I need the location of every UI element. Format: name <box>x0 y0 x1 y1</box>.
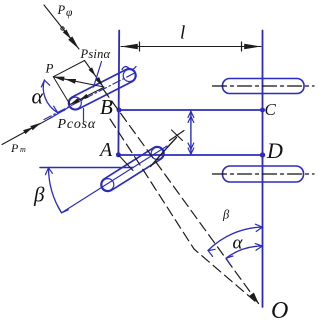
dimension k bottom chevrons <box>188 143 194 154</box>
solid start of line A toward O <box>119 156 133 171</box>
wheel rear-right (bottom right) <box>223 166 304 182</box>
wheel rear-left steered (bottom) <box>98 144 166 194</box>
angle alpha arc top-left <box>43 80 58 113</box>
dimension l right arrowhead <box>244 44 261 50</box>
force Pcosa arrow <box>70 88 104 105</box>
wire line A-D <box>118 154 262 156</box>
dimension l left arrowhead <box>121 44 138 50</box>
node D dot <box>260 152 265 157</box>
force P arrow <box>53 77 104 87</box>
dimension l line <box>121 46 261 48</box>
dashed line 2 rear-left axle to O <box>110 119 257 303</box>
wheel front-left axis dash-dot centerline <box>44 72 136 119</box>
svg-text:B: B <box>100 95 113 119</box>
svg-text:l: l <box>180 23 185 44</box>
wheel front-left steered (top) <box>66 66 138 112</box>
wheel rear-left axis line <box>62 146 167 213</box>
force Pt arrow <box>2 118 50 144</box>
blue axis continuation to wheel <box>50 107 70 119</box>
svg-text:P: P <box>10 141 19 155</box>
svg-text:D: D <box>266 138 283 163</box>
svg-text:β: β <box>222 208 230 222</box>
force Psina arrow <box>85 61 104 87</box>
node A dot <box>116 152 121 157</box>
wheel front-right dash-dot centerline <box>213 85 315 87</box>
svg-text:т: т <box>20 145 26 154</box>
svg-text:O: O <box>271 298 288 324</box>
node C dot <box>260 108 265 113</box>
wire right vertical line C-D-O <box>262 31 264 308</box>
angle beta arc at O <box>208 227 263 251</box>
parallelogram side P to Pcosa tip <box>53 77 70 105</box>
arrowhead at O <box>249 293 258 304</box>
svg-text:C: C <box>265 100 277 119</box>
wire line B-C <box>119 109 263 111</box>
node B dot <box>117 108 122 113</box>
angle beta arc bottom-left <box>49 168 62 213</box>
svg-text:A: A <box>98 139 113 161</box>
leader Pcosa <box>83 109 85 122</box>
wheel rear-right dash-dot centerline <box>213 173 315 175</box>
svg-text:β: β <box>33 183 45 207</box>
svg-text:φ: φ <box>66 7 73 19</box>
wire left vertical kingpin line B-A <box>117 31 120 155</box>
dimension k line <box>190 111 192 155</box>
angle alpha arc at O <box>226 246 262 258</box>
svg-text:P: P <box>45 61 54 76</box>
svg-text:Pcosα: Pcosα <box>57 117 97 132</box>
wheel front-right (top right) <box>223 79 305 94</box>
wire beta reference horizontal <box>40 167 133 169</box>
leader Psina <box>94 62 102 88</box>
svg-text:α: α <box>233 233 244 254</box>
svg-text:α: α <box>32 84 44 109</box>
dimension k top chevrons <box>188 111 194 122</box>
squiggle under left arrow <box>122 67 136 70</box>
force Pphi arrow <box>44 5 79 49</box>
dashed line 1 from wheel center through B to O <box>103 89 259 304</box>
svg-text:Psinα: Psinα <box>80 47 111 61</box>
parallelogram side P to Psina start <box>53 61 84 77</box>
label k rotated <box>151 138 177 167</box>
svg-text:P: P <box>57 3 66 17</box>
